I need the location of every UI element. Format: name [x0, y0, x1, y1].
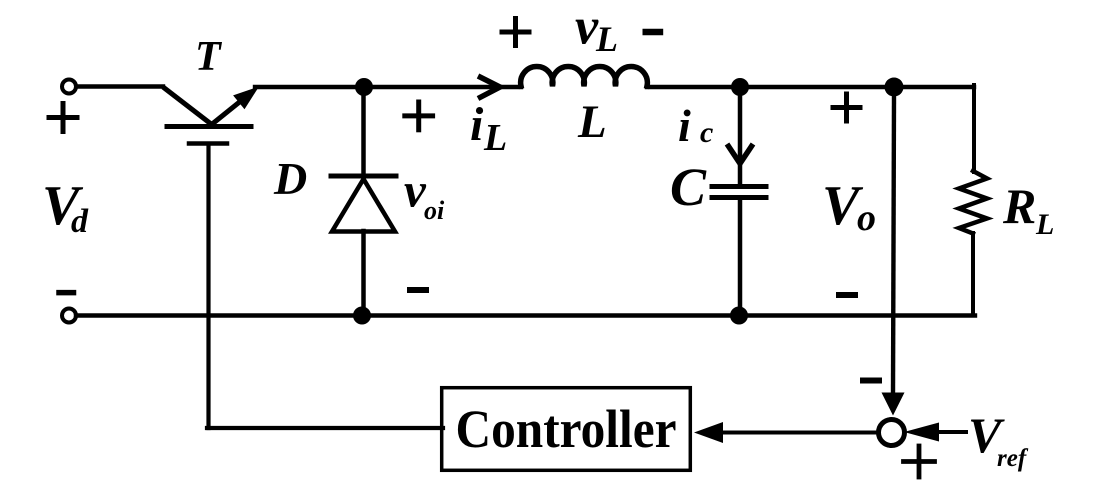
minus sign v_L	[646, 29, 660, 35]
plus sign Vd	[49, 104, 77, 132]
node at capacitor top	[731, 78, 749, 96]
wire R_L branch lower	[971, 233, 975, 316]
node at Vo top	[885, 78, 904, 97]
svg-text:L: L	[1035, 208, 1054, 241]
node at capacitor bottom	[730, 307, 748, 325]
transistor T drive bar	[189, 141, 227, 146]
transistor Q1 (T) collector diagonal	[163, 87, 213, 126]
svg-text:c: c	[700, 116, 713, 149]
current arrow i_L	[478, 76, 500, 99]
plus sign v_oi	[405, 102, 433, 130]
wire top rail (inductor to right corner)	[647, 85, 974, 89]
wire summing junction to controller	[723, 431, 877, 435]
minus sign at summing junction	[863, 378, 879, 384]
transistor T base bar	[167, 124, 251, 129]
wire R_L branch upper	[972, 85, 976, 172]
capacitor C bottom plate	[712, 195, 766, 200]
controller box	[442, 388, 691, 471]
svg-text:C: C	[670, 157, 707, 217]
svg-text:oi: oi	[424, 196, 445, 225]
svg-text:i: i	[470, 98, 484, 151]
transistor T base drive stem	[206, 145, 210, 428]
current arrow i_c	[727, 144, 753, 164]
svg-text:D: D	[273, 153, 307, 204]
svg-text:L: L	[595, 19, 618, 59]
capacitor C branch wire upper	[738, 87, 743, 184]
arrow into summing junction	[882, 393, 905, 416]
svg-text:L: L	[577, 96, 607, 148]
plus sign V_o	[833, 94, 860, 121]
capacitor C branch wire lower	[738, 199, 743, 315]
node at diode top	[355, 78, 373, 96]
svg-text:i: i	[678, 100, 691, 151]
diode D cathode bar	[331, 174, 396, 179]
wire top-left	[77, 84, 163, 88]
terminal top-left (+)	[62, 80, 76, 94]
svg-text:R: R	[1002, 178, 1036, 234]
diode D triangle	[332, 179, 395, 232]
wire Vo sense line	[893, 96, 894, 393]
plus sign v_L	[502, 19, 529, 46]
wire V_ref input	[937, 430, 966, 434]
minus sign V_o	[839, 292, 855, 298]
summing junction	[879, 420, 905, 446]
arrowhead V_ref	[904, 423, 939, 442]
diode D branch wire upper	[361, 87, 366, 176]
svg-text:d: d	[71, 203, 89, 240]
transistor T emitter with arrow	[211, 100, 242, 125]
arrowhead into controller	[694, 422, 723, 443]
plus sign at summing junction	[904, 446, 935, 477]
wire top rail (emitter to inductor)	[255, 85, 521, 89]
capacitor C top plate	[712, 184, 766, 189]
svg-text:Controller: Controller	[456, 399, 677, 459]
wire bottom rail	[76, 313, 975, 317]
terminal bottom-left (-)	[62, 309, 76, 323]
svg-text:L: L	[483, 117, 507, 159]
minus sign v_oi	[410, 287, 426, 293]
inductor L	[521, 67, 648, 86]
svg-text:o: o	[857, 197, 876, 239]
resistor R_L zigzag	[959, 171, 987, 234]
diode D branch wire lower	[361, 231, 366, 315]
svg-text:T: T	[195, 34, 223, 80]
wire controller to transistor base	[207, 426, 443, 430]
svg-text:ref: ref	[997, 445, 1029, 472]
minus sign Vd	[59, 290, 74, 296]
node at diode bottom	[353, 307, 371, 325]
